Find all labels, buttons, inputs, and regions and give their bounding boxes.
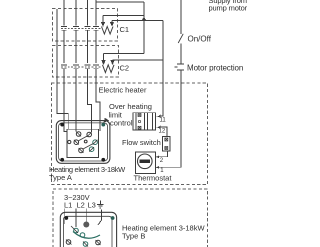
thermostat dial circle [138, 154, 153, 169]
thermostat terminal 1 pennant [155, 166, 159, 169]
wire C2 coil left feed [104, 53, 145, 55]
heater A terminal slashes [74, 132, 98, 153]
svg-text:C1: C1 [120, 25, 130, 34]
heating element A outer box [56, 121, 110, 164]
supply wire from pump motor [180, 0, 182, 34]
wire motor protection down to thermostat 1 [159, 70, 182, 167]
C1 linkage dashed [61, 28, 101, 30]
earth symbol [97, 201, 103, 208]
heater B slashes [66, 226, 101, 247]
svg-text:Motor protection: Motor protection [187, 64, 243, 73]
svg-text:On/Off: On/Off [188, 34, 212, 43]
svg-text:Type B: Type B [122, 231, 145, 240]
coil C2 right lead [111, 60, 114, 64]
svg-text:12: 12 [159, 128, 166, 134]
C1 contact poles [61, 26, 99, 63]
svg-text:Electric heater: Electric heater [99, 85, 147, 94]
terminal 11 pennant [156, 115, 161, 118]
electric heater dashed box [52, 83, 208, 185]
svg-text:Thermostat: Thermostat [134, 174, 173, 183]
contactor C1 dashed box [53, 9, 118, 42]
flow switch terminals [165, 138, 168, 150]
wire onoff to motor protection [180, 43, 182, 64]
heater A terminal links [78, 136, 93, 149]
svg-text:L1: L1 [64, 201, 72, 210]
heating element A inner box [67, 129, 99, 157]
heater B feed wires [65, 209, 102, 228]
heating element B inner box [64, 216, 113, 247]
coil C2 left lead [102, 54, 105, 65]
on/off switch lever [178, 34, 183, 43]
contactor C2 dashed box [53, 46, 119, 78]
coil C2 [103, 65, 115, 73]
flow switch box [163, 137, 171, 152]
wire A phase tap top [96, 1, 144, 3]
coil C1 right lead [111, 21, 114, 26]
junction arrow [142, 17, 146, 21]
wire L2 upper [75, 0, 77, 26]
svg-text:Flow switch: Flow switch [122, 138, 161, 147]
thermostat box [136, 152, 156, 173]
thermostat terminal 2 pennant [155, 155, 159, 158]
wire L3 upper [87, 0, 89, 26]
wire C coil feed [112, 20, 163, 22]
svg-text:11: 11 [160, 118, 167, 124]
heater A inner wires [76, 121, 100, 133]
svg-text:L3: L3 [88, 201, 96, 210]
motor protection contact [175, 64, 185, 70]
svg-text:L2: L2 [77, 201, 85, 210]
svg-text:C2: C2 [120, 64, 130, 73]
heater B screws [64, 216, 114, 220]
3~230V supply dashed box [53, 189, 208, 247]
C2 contact poles [61, 65, 100, 132]
wire flow switch to thermostat 2 [159, 151, 168, 157]
coil C1 [102, 27, 114, 35]
heater B big terminal [83, 222, 89, 228]
heater A screws [60, 123, 105, 162]
heater B arc [73, 232, 100, 239]
wire supply junction vertical [143, 2, 145, 54]
over heating limit control box [133, 113, 156, 131]
wire C vertical to terminal 11 [160, 21, 163, 117]
wire L4 upper [95, 0, 97, 26]
heater B terminal circles [66, 228, 100, 246]
svg-text:pump motor: pump motor [209, 4, 248, 13]
wire terminal 12 to flow switch [159, 127, 168, 137]
terminal 12 pennant [156, 126, 161, 129]
svg-text:control: control [110, 118, 133, 127]
svg-text:Type A: Type A [49, 173, 72, 182]
heater A terminal circles [68, 132, 98, 153]
wire L1 upper [63, 0, 65, 26]
C2 linkage dashed [61, 66, 102, 68]
thermostat dial slot [140, 160, 150, 163]
wire B coil C1 return [103, 14, 144, 16]
coil C1 left lead [102, 15, 105, 25]
over heat terminal marks [138, 114, 141, 130]
heating element B outer box [60, 212, 116, 247]
sensor arrow to control [104, 118, 110, 123]
wire C2 coil right to chain [113, 59, 164, 61]
wire neutral left [57, 9, 68, 129]
heating element A frame inner line [59, 123, 108, 161]
